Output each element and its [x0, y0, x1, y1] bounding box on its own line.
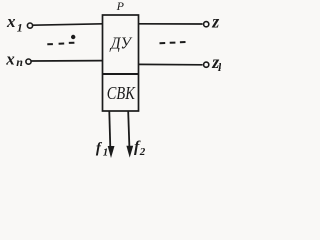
wire x1 to block — [33, 24, 103, 25]
svg-text:x: x — [5, 49, 15, 68]
input terminal x1 circle — [27, 23, 32, 28]
svg-text:Р: Р — [116, 0, 125, 13]
svg-text:p: p — [218, 60, 221, 72]
input terminal xn circle — [26, 59, 31, 64]
svg-text:СВК: СВК — [107, 83, 136, 103]
svg-text:п: п — [16, 55, 23, 69]
svg-text:ДУ: ДУ — [109, 34, 133, 53]
divider line between DU and SVK sections — [103, 73, 139, 75]
arrow f2 line — [128, 112, 129, 148]
svg-text:2: 2 — [139, 146, 146, 158]
wire block to output z — [139, 23, 203, 25]
block P outer rectangle — [103, 15, 139, 111]
bold dot above left dashes — [71, 35, 75, 39]
output terminal z circle — [204, 22, 209, 27]
svg-text:1: 1 — [103, 147, 109, 159]
wire block to output zp — [139, 63, 203, 65]
left ellipsis dashes — [47, 43, 74, 45]
arrow f1 head — [108, 146, 115, 158]
arrow f2 head — [126, 146, 133, 158]
svg-text:z: z — [211, 12, 219, 32]
svg-text:1: 1 — [17, 21, 23, 35]
svg-text:x: x — [6, 12, 16, 31]
paper background — [0, 0, 221, 163]
wire xn to block — [31, 60, 102, 62]
output terminal zp circle — [204, 62, 209, 67]
right ellipsis dashes — [160, 42, 186, 43]
arrow f1 line — [109, 112, 110, 149]
